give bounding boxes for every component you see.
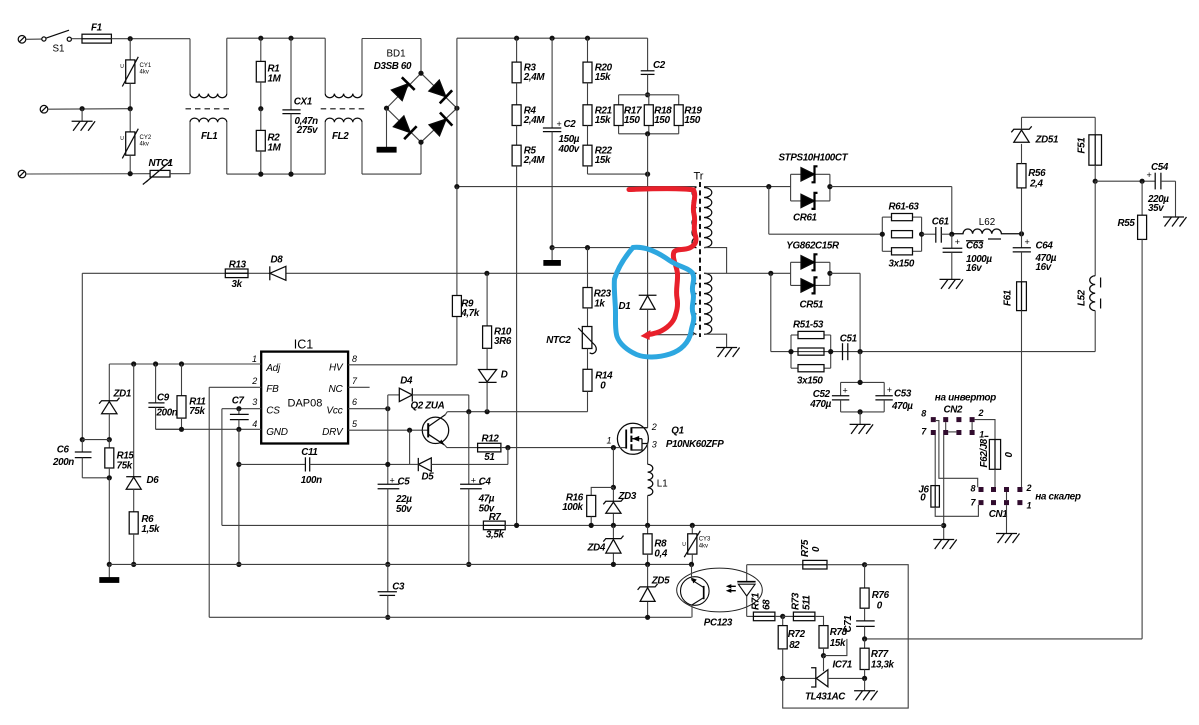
transformer secondary 1 — [704, 188, 727, 274]
node R72-bot — [780, 676, 785, 681]
svg-text:68: 68 — [762, 599, 773, 610]
capacitor C2 snubber — [641, 38, 666, 95]
svg-text:1: 1 — [979, 430, 984, 440]
ground C2 — [544, 248, 561, 266]
svg-text:C61: C61 — [932, 217, 949, 228]
diode D8 — [270, 255, 286, 281]
resistor R78 — [819, 626, 848, 656]
svg-text:50v: 50v — [396, 504, 412, 515]
resistor R71 — [747, 593, 783, 621]
node R61-right — [919, 232, 924, 237]
svg-text:на инвертор: на инвертор — [935, 393, 996, 404]
svg-text:+: + — [843, 386, 848, 396]
resistor R72 — [778, 616, 805, 678]
svg-text:R71: R71 — [751, 593, 762, 610]
svg-text:D6: D6 — [147, 475, 160, 486]
wire pin5 DRV — [348, 429, 422, 431]
resistor R7 — [483, 512, 505, 541]
node D6-top — [131, 361, 136, 366]
svg-text:R13: R13 — [229, 260, 247, 271]
svg-text:3: 3 — [652, 440, 657, 450]
svg-text:NTC2: NTC2 — [546, 335, 571, 346]
svg-text:8: 8 — [352, 354, 357, 364]
fuse J6 — [918, 485, 939, 508]
node ZD1-R15 — [107, 437, 112, 442]
svg-text:U: U — [682, 542, 686, 548]
node C52-C53-bot — [858, 409, 863, 414]
node CR51-in — [768, 271, 773, 276]
node CX1-bot — [288, 172, 293, 177]
svg-text:S1: S1 — [53, 44, 65, 55]
svg-text:DAP08: DAP08 — [288, 398, 323, 410]
wire — [362, 39, 421, 74]
node R16-bot — [589, 523, 594, 528]
svg-text:C64: C64 — [1036, 241, 1054, 252]
resistor R3 — [512, 38, 545, 105]
svg-text:470µ: 470µ — [891, 401, 913, 412]
node L62-C64 — [1019, 231, 1024, 236]
svg-text:0: 0 — [920, 493, 926, 504]
wire pin3 CS — [222, 409, 261, 526]
svg-text:R12: R12 — [482, 434, 500, 445]
wire — [227, 37, 325, 39]
wire J6 to CN1-7 — [935, 505, 978, 516]
node R20-top — [585, 36, 590, 41]
svg-text:NTC1: NTC1 — [149, 158, 173, 169]
ground primary — [100, 564, 119, 582]
wire CR61 left down — [769, 187, 883, 235]
svg-text:4kv: 4kv — [140, 70, 149, 76]
svg-text:Q2 ZUA: Q2 ZUA — [411, 401, 445, 412]
svg-text:PC123: PC123 — [704, 618, 733, 629]
svg-text:1M: 1M — [268, 143, 282, 154]
node BD1-bottom — [418, 140, 423, 145]
svg-text:100n: 100n — [301, 475, 322, 486]
node BD1-top — [418, 71, 423, 76]
wire CR51 left down — [770, 273, 772, 351]
svg-text:STPS10H100CT: STPS10H100CT — [779, 153, 849, 164]
svg-text:CS: CS — [266, 405, 280, 416]
svg-text:2: 2 — [651, 422, 657, 432]
node L1-bot — [645, 523, 650, 528]
chassis ground input — [72, 109, 96, 131]
svg-text:C4: C4 — [479, 476, 492, 487]
wire ZD51-F51 top — [1022, 117, 1096, 135]
resistor R75 — [747, 539, 865, 569]
svg-text:1: 1 — [607, 436, 612, 446]
node CR61-out — [827, 184, 832, 189]
inductor L62 — [952, 217, 1022, 239]
wire pin1 Adj — [109, 363, 261, 365]
node CY1-CY2 — [128, 106, 133, 111]
resistor R16 — [562, 487, 613, 525]
svg-text:C2: C2 — [653, 60, 666, 71]
svg-text:3x150: 3x150 — [797, 376, 823, 387]
svg-text:1: 1 — [252, 354, 257, 364]
wire pin4 GND — [156, 428, 262, 430]
input terminal PE — [18, 170, 150, 178]
wire clamp — [647, 134, 649, 295]
node C2-top — [550, 36, 555, 41]
node CY3-top — [690, 523, 695, 528]
wire aux bottom lead — [648, 334, 694, 336]
zener ZD1 — [99, 364, 131, 440]
wire 12V rail — [1095, 180, 1155, 182]
svg-text:Q1: Q1 — [671, 426, 683, 437]
resistor R77 — [860, 639, 894, 679]
shunt regulator IC71 TL431AC — [783, 656, 865, 703]
resistor R55 — [1118, 181, 1147, 239]
diode D — [479, 348, 508, 411]
node F1-CY1 — [128, 36, 133, 41]
wire CR61 out — [830, 187, 952, 235]
wire — [362, 142, 421, 174]
node R55-top — [1140, 179, 1145, 184]
node C4-bot — [466, 562, 471, 567]
node CX1-top — [288, 36, 293, 41]
svg-text:8: 8 — [921, 409, 926, 419]
input terminal L — [18, 36, 41, 44]
node D-out — [485, 409, 490, 414]
capacitor C7 — [230, 396, 249, 430]
LED PC123 — [726, 565, 756, 617]
wire +rail top — [457, 37, 648, 39]
svg-text:R77: R77 — [871, 649, 889, 660]
node R11-bot — [179, 427, 184, 432]
svg-text:0: 0 — [600, 381, 606, 392]
wire F61 to CN1 — [1021, 311, 1023, 488]
wire CN1-gnd — [1006, 505, 1008, 533]
ground CN2 — [933, 540, 957, 550]
svg-text:HV: HV — [329, 363, 344, 374]
choke FL1 — [186, 38, 232, 174]
svg-text:L52: L52 — [1077, 289, 1088, 306]
node +rail-R9 — [454, 184, 459, 189]
choke FL2 — [321, 38, 367, 174]
svg-text:F1: F1 — [91, 23, 102, 34]
svg-text:3k: 3k — [232, 279, 243, 290]
svg-text:75k: 75k — [117, 461, 133, 472]
zener ZD51 — [1021, 188, 1023, 234]
svg-text:R61-63: R61-63 — [889, 202, 920, 213]
resistor R13 — [225, 260, 248, 291]
wire drain to Q1 — [647, 335, 649, 428]
ground BD1-minus — [377, 108, 396, 152]
node R8-bot — [645, 562, 650, 567]
wire R55 to fb — [865, 239, 1143, 639]
svg-text:ZD4: ZD4 — [587, 543, 606, 554]
capacitor C3 — [378, 564, 405, 617]
diode D6 — [126, 364, 159, 512]
input terminal N — [40, 105, 130, 113]
svg-text:F51: F51 — [1077, 138, 1088, 154]
svg-text:4: 4 — [252, 419, 257, 429]
capacitor C5 — [378, 409, 413, 565]
transformer primary winding — [692, 188, 696, 248]
svg-text:+: + — [390, 475, 395, 485]
wire pin2 FB — [209, 387, 261, 617]
svg-text:C5: C5 — [398, 476, 411, 487]
svg-text:D3SB 60: D3SB 60 — [374, 61, 412, 72]
wire pin8 HV — [348, 317, 457, 365]
resistor R11 — [177, 364, 206, 429]
capacitor C71 — [843, 616, 875, 639]
svg-text:R75: R75 — [800, 539, 811, 557]
svg-text:R56: R56 — [1028, 168, 1046, 179]
red scribble — [629, 189, 696, 340]
wire gnd col — [108, 478, 110, 565]
svg-text:2: 2 — [1026, 483, 1032, 493]
wire gate-ZD3 — [612, 448, 614, 488]
svg-text:CR51: CR51 — [800, 300, 824, 311]
node R23-top — [585, 245, 590, 250]
node gnd-rail2 — [236, 562, 241, 567]
svg-text:1,5k: 1,5k — [141, 524, 160, 535]
dual diode CR61 — [769, 153, 849, 224]
fuse F51 — [1077, 135, 1102, 181]
phototransistor PC123 — [681, 564, 710, 617]
wire CR51 out — [830, 273, 860, 351]
wire gnd rail — [109, 563, 691, 565]
varistor CY2 — [120, 109, 152, 174]
transistor Q2 — [411, 401, 478, 448]
zener ZD51 symbol — [1011, 117, 1058, 145]
node drain — [645, 332, 650, 337]
connector CN1 — [971, 483, 1032, 520]
transformer aux winding — [692, 273, 696, 334]
optocoupler PC123 package — [677, 568, 763, 628]
svg-text:Vcc: Vcc — [326, 405, 342, 416]
svg-text:51: 51 — [484, 452, 494, 463]
wire Vcc charge line — [447, 411, 587, 413]
node R1-R2 — [258, 106, 263, 111]
capacitor C61 — [922, 217, 952, 243]
svg-text:1M: 1M — [268, 74, 282, 85]
svg-text:470µ: 470µ — [809, 399, 831, 410]
svg-text:DRV: DRV — [322, 427, 344, 438]
node Vcc-C5 — [385, 406, 390, 411]
wire aux rail — [82, 272, 696, 274]
svg-text:R73: R73 — [791, 592, 802, 610]
node C71-R77 — [862, 636, 867, 641]
svg-text:1k: 1k — [594, 299, 605, 310]
capacitor C4 — [460, 412, 495, 565]
resistor R15 — [105, 440, 135, 478]
node C11-C5 — [385, 462, 390, 467]
wire CN2-8 to CN1-8 — [936, 421, 978, 488]
node ZD4-bot — [611, 562, 616, 567]
svg-text:82: 82 — [789, 640, 800, 651]
svg-text:CY3: CY3 — [699, 537, 711, 543]
zener ZD4 — [587, 525, 624, 564]
dual diode CR51 — [771, 241, 840, 311]
node CY2-NTC1 — [128, 171, 133, 176]
ground TL431 — [854, 678, 878, 700]
ground C52-C53 — [850, 412, 874, 434]
node CR61-in — [766, 184, 771, 189]
node R77-bot — [862, 676, 867, 681]
wire — [82, 439, 109, 441]
capacitor C52 — [809, 352, 884, 412]
wire sec rail — [704, 272, 771, 274]
svg-text:ZD1: ZD1 — [113, 389, 131, 400]
svg-text:C51: C51 — [840, 333, 857, 344]
svg-text:C9: C9 — [157, 393, 170, 404]
resistor R12 — [478, 434, 501, 463]
svg-text:200n: 200n — [52, 457, 74, 468]
svg-text:13,3k: 13,3k — [871, 660, 895, 671]
ground CN1 — [996, 534, 1020, 544]
connector CN2 — [921, 405, 984, 440]
svg-text:D5: D5 — [422, 472, 435, 483]
svg-text:U: U — [120, 136, 124, 142]
svg-text:15k: 15k — [595, 155, 611, 166]
svg-text:8: 8 — [971, 484, 976, 494]
svg-text:2,4M: 2,4M — [523, 115, 546, 126]
inductor L1 — [648, 444, 668, 526]
svg-text:150: 150 — [684, 115, 700, 126]
resistor R22 — [583, 145, 613, 166]
resistor R8 — [643, 525, 668, 564]
svg-text:CX1: CX1 — [294, 97, 312, 108]
resistor network R51-53 — [791, 320, 831, 387]
label na invertor — [935, 393, 996, 404]
wire CN2-gnd — [943, 435, 945, 540]
svg-text:4kv: 4kv — [699, 544, 708, 550]
node R2-bot — [258, 172, 263, 177]
resistor R21 — [583, 105, 612, 145]
svg-text:CY1: CY1 — [140, 63, 152, 69]
fuse F61 — [1003, 282, 1027, 311]
svg-text:C63: C63 — [966, 240, 984, 251]
capacitor C9 — [148, 364, 181, 429]
svg-text:2,4: 2,4 — [1029, 179, 1043, 190]
svg-text:3x150: 3x150 — [889, 259, 915, 270]
wire sec1 top lead — [704, 186, 769, 188]
wire pin6 Vcc — [348, 408, 388, 410]
svg-text:FB: FB — [266, 384, 279, 395]
svg-text:C3: C3 — [392, 581, 405, 592]
node gnd-tap — [80, 106, 85, 111]
node C6-top — [80, 437, 85, 442]
svg-text:C11: C11 — [301, 447, 317, 458]
svg-text:+: + — [557, 119, 562, 129]
wire D5 left — [410, 463, 419, 465]
node DRV-D5 — [407, 428, 412, 433]
node gnd-ext — [236, 462, 241, 467]
svg-text:C53: C53 — [894, 389, 912, 400]
svg-text:C6: C6 — [57, 445, 70, 456]
blue scribble — [614, 247, 694, 357]
node bleeder-CS — [514, 523, 519, 528]
node R17-19-bot — [645, 131, 650, 136]
capacitor C54 — [1147, 162, 1176, 217]
wire +rail to transformer — [457, 186, 697, 188]
transformer secondary 2 — [704, 273, 727, 347]
fuse F1 — [71, 23, 111, 44]
wire R22 elbow — [588, 166, 648, 174]
wire CN2-2 to F62 — [975, 420, 995, 440]
node gate — [611, 445, 616, 450]
svg-text:C71: C71 — [843, 616, 854, 633]
node BD1-left — [384, 106, 389, 111]
svg-text:C54: C54 — [1151, 162, 1169, 173]
node C3-top — [385, 562, 390, 567]
capacitor C51 — [840, 333, 857, 360]
svg-text:Adj: Adj — [265, 363, 281, 374]
svg-text:NC: NC — [328, 384, 343, 395]
resistor R10 — [483, 273, 512, 348]
svg-text:D4: D4 — [400, 376, 413, 387]
svg-text:15k: 15k — [595, 72, 611, 83]
svg-text:+: + — [887, 385, 892, 395]
wire primary-bottom line — [552, 247, 696, 249]
IC IC1 DAP08 — [251, 338, 358, 444]
wire ref step — [824, 639, 847, 656]
node C52-C53-top — [858, 380, 863, 385]
wire pin7 NC stub — [348, 386, 370, 388]
fuse F62/J8 — [979, 436, 1015, 487]
svg-text:на скалер: на скалер — [1035, 492, 1081, 503]
svg-text:2,4M: 2,4M — [523, 155, 546, 166]
svg-text:L1: L1 — [657, 479, 668, 490]
node CY3-bot — [689, 562, 694, 567]
node R17-19-top — [645, 92, 650, 97]
wire — [227, 173, 325, 175]
node R6-bot — [131, 562, 136, 567]
svg-text:2: 2 — [978, 408, 984, 418]
svg-text:2: 2 — [251, 376, 257, 386]
transformer Tr core — [694, 171, 704, 338]
wire fb border — [783, 565, 909, 708]
resistor R6 — [129, 512, 160, 565]
capacitor C53 — [841, 382, 914, 412]
resistor R4 — [512, 105, 545, 145]
svg-text:15k: 15k — [595, 115, 611, 126]
svg-text:0,4: 0,4 — [654, 549, 667, 560]
wire — [111, 38, 190, 40]
resistor network R61-63 — [882, 202, 921, 270]
node R3-top — [514, 36, 519, 41]
svg-text:Tr: Tr — [694, 171, 704, 183]
svg-text:3,5k: 3,5k — [486, 530, 505, 541]
svg-text:ZD5: ZD5 — [651, 576, 670, 587]
wire gnd ext — [238, 429, 240, 564]
svg-text:3R6: 3R6 — [494, 336, 512, 347]
svg-text:35v: 35v — [1148, 203, 1164, 214]
svg-text:200n: 200n — [156, 407, 178, 418]
svg-text:R76: R76 — [872, 590, 890, 601]
node R1-top — [258, 36, 263, 41]
node clamp-R22 — [645, 172, 650, 177]
wire CS rail — [222, 524, 484, 526]
node CR51-out — [827, 271, 832, 276]
node R51-right — [828, 349, 833, 354]
svg-text:FL1: FL1 — [201, 131, 217, 142]
node C52-top-rail — [858, 349, 863, 354]
node R61-left — [880, 232, 885, 237]
svg-text:2,4M: 2,4M — [523, 72, 546, 83]
ground C63 — [940, 279, 964, 289]
resistor R56 — [1017, 144, 1046, 190]
inductor L52 — [771, 181, 1101, 351]
svg-text:400v: 400v — [558, 144, 580, 155]
svg-text:GND: GND — [266, 427, 288, 438]
node D4-out — [466, 409, 471, 414]
svg-text:ZD51: ZD51 — [1035, 135, 1059, 146]
node C63-top — [949, 232, 954, 237]
thermistor NTC1 — [143, 158, 190, 185]
